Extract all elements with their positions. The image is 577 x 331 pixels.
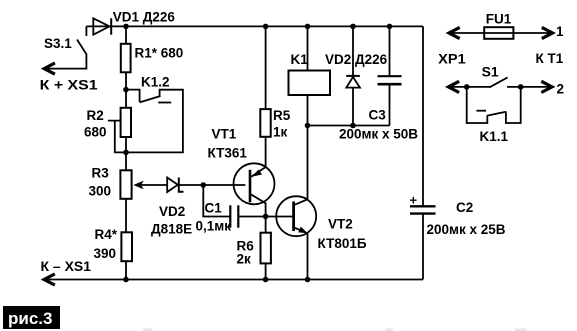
wire mid rail: [308, 125, 390, 127]
wire R1 to R2: [125, 72, 127, 108]
svg-text:VD1 Д226: VD1 Д226: [113, 10, 176, 25]
svg-text:K1.2: K1.2: [141, 75, 170, 90]
node junction S1 left: [464, 84, 470, 90]
relay coil K1: [289, 52, 331, 95]
node junction VD2/C1: [201, 182, 207, 188]
svg-text:FU1: FU1: [486, 12, 512, 27]
svg-text:КТ361: КТ361: [208, 146, 248, 161]
node junction R2/R3/K1.2: [123, 150, 129, 156]
wire VT2 emitter to bottom rail: [307, 233, 309, 280]
wire C1 to VT2 base: [238, 216, 293, 218]
svg-text:1: 1: [556, 24, 564, 39]
figure label рис.3: [3, 306, 60, 329]
svg-text:2: 2: [557, 82, 565, 97]
capacitor C3: [339, 76, 418, 141]
wire R5 to VT1 emitter: [265, 137, 267, 168]
wire VT1 collector to R6: [265, 217, 267, 233]
node junction top rail K1: [305, 24, 311, 30]
node junction bottom rail VT2 emitter: [305, 277, 311, 283]
svg-text:К Т1: К Т1: [536, 51, 564, 66]
svg-text:+: +: [410, 193, 418, 208]
svg-text:2к: 2к: [237, 252, 252, 267]
svg-text:0,1мк: 0,1мк: [196, 219, 232, 234]
svg-text:200мк х 25В: 200мк х 25В: [427, 222, 506, 237]
wire C1 branch: [203, 185, 230, 217]
resistor R6: [237, 233, 271, 267]
diode VD1: [93, 10, 175, 35]
svg-text:R4*: R4*: [95, 227, 118, 242]
svg-text:рис.3: рис.3: [8, 309, 52, 328]
wire R4 to bottom rail: [125, 261, 127, 279]
node junction top rail VD2: [350, 24, 356, 30]
svg-text:C1: C1: [205, 201, 223, 216]
wire top rail: [86, 25, 423, 27]
svg-text:К + XS1: К + XS1: [40, 78, 99, 93]
wire bottom rail: [44, 274, 423, 285]
svg-text:200мк х 50В: 200мк х 50В: [339, 127, 418, 142]
wire C3 branch from top rail: [389, 26, 391, 76]
diode VD2 Д226: [325, 52, 388, 88]
node junction R1/R2/K1.2: [123, 87, 129, 93]
relay contact K1.2: [114, 75, 183, 153]
svg-text:VT1: VT1: [212, 126, 237, 141]
node junction mid rail VD2: [350, 123, 356, 129]
wire VD2 to mid rail: [352, 88, 354, 126]
transistor VT2: [276, 196, 367, 251]
svg-text:390: 390: [94, 246, 117, 261]
node junction top rail C3: [387, 24, 393, 30]
svg-text:R1* 680: R1* 680: [135, 46, 184, 61]
relay contact K1.1: [467, 87, 521, 144]
node junction K1 / VT2 collector / mid rail: [305, 123, 311, 129]
node junction bottom rail R4: [123, 277, 129, 283]
resistor R2: [84, 108, 131, 140]
resistor R3: [89, 166, 132, 199]
svg-text:680: 680: [84, 125, 107, 140]
svg-text:VT2: VT2: [328, 217, 353, 232]
wire R2 wiper tap: [108, 121, 121, 153]
svg-text:S1: S1: [482, 65, 500, 80]
wire R2 to R3: [125, 137, 127, 170]
svg-text:R3: R3: [92, 166, 110, 181]
fuse FU1: [449, 12, 553, 39]
wire VD2 to VT1 base: [179, 184, 246, 186]
svg-text:C2: C2: [456, 200, 473, 215]
svg-text:S3.1: S3.1: [44, 36, 72, 51]
svg-text:VD2 Д226: VD2 Д226: [325, 52, 388, 67]
switch S1: [448, 65, 552, 93]
wire K1 to mid rail: [307, 95, 309, 126]
wire C3 to mid rail: [389, 84, 391, 125]
svg-text:R2: R2: [87, 108, 104, 123]
zener diode VD2 Д818Е: [151, 178, 192, 237]
svg-text:КТ801Б: КТ801Б: [318, 236, 367, 251]
wire right vertical to C2: [422, 26, 424, 206]
node junction S1 right: [518, 84, 524, 90]
node junction VT1 collector / C1 / VT2 base: [263, 214, 269, 220]
wire R6 to bottom rail: [265, 263, 267, 279]
transistor VT1: [208, 126, 275, 216]
svg-text:К – XS1: К – XS1: [41, 259, 92, 274]
resistor R5: [260, 108, 290, 140]
svg-text:R5: R5: [273, 108, 291, 123]
wire faint scan remnants bottom edge: [143, 329, 527, 331]
svg-text:K1: K1: [291, 52, 309, 67]
svg-text:K1.1: K1.1: [480, 129, 509, 144]
svg-text:1к: 1к: [273, 125, 288, 140]
resistor R1: [121, 44, 183, 73]
wire left vertical top: [125, 26, 127, 43]
switch S3.1: [44, 26, 87, 74]
svg-text:300: 300: [89, 184, 112, 199]
node junction VD1/R1: [123, 24, 129, 30]
wire R3 to R4: [125, 199, 127, 233]
capacitor C1: [196, 201, 239, 234]
node junction bottom rail R6: [263, 277, 269, 283]
capacitor C2: [410, 193, 506, 238]
wire K1 branch from top rail: [307, 26, 309, 70]
wire VD2 diode branch from top rail: [352, 26, 354, 76]
svg-text:XP1: XP1: [438, 52, 466, 67]
wire R5 branch from top rail: [265, 26, 267, 109]
wire C2 to bottom rail: [422, 214, 424, 280]
svg-text:C3: C3: [369, 108, 387, 123]
wire VT2 collector up to mid rail: [307, 126, 309, 200]
node junction top rail R5: [263, 24, 269, 30]
wire R3 wiper arrow from VD2: [133, 181, 167, 190]
svg-text:Д818Е: Д818Е: [151, 222, 192, 237]
resistor R4: [94, 227, 133, 261]
svg-text:VD2: VD2: [159, 204, 185, 219]
